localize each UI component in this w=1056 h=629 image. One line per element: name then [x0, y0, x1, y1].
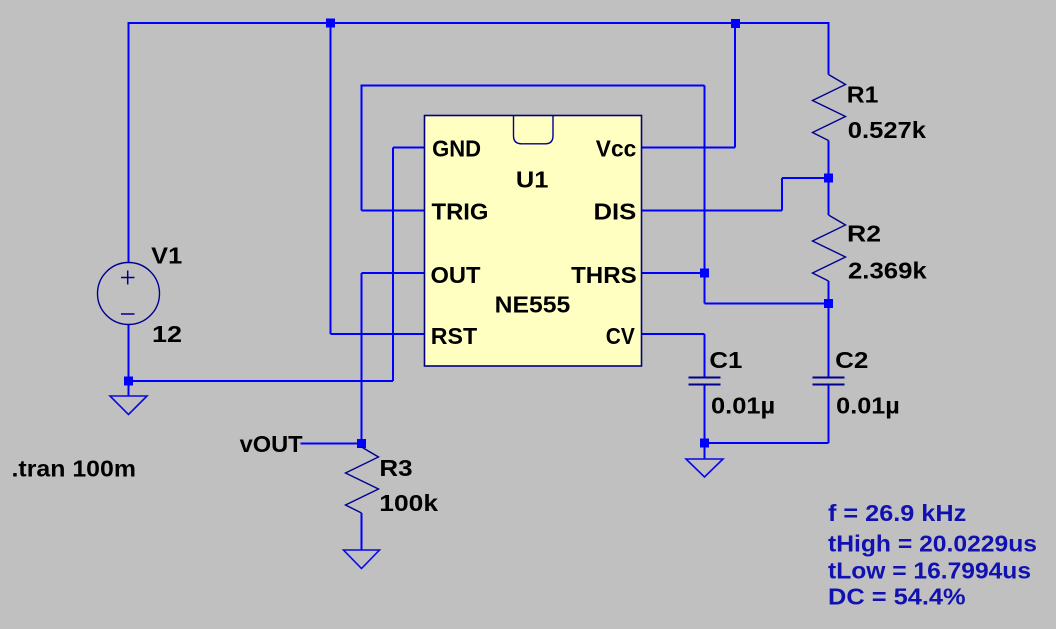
wire THRS net bottom horizontal to R2 — [705, 303, 829, 305]
wire CV horizontal from IC pin — [641, 333, 705, 335]
node junction V1 / ground — [124, 377, 133, 386]
wire R1 top lead vertical — [828, 22, 830, 75]
wire RST horizontal to IC pin — [331, 333, 426, 335]
wire GND vertical drop — [392, 148, 394, 382]
svg-text:CV: CV — [606, 323, 636, 349]
wire R3 ground lead — [361, 513, 363, 550]
wire Vcc vertical from top rail — [734, 23, 736, 148]
wire ground rail to V1 — [129, 380, 394, 382]
svg-text:tLow = 16.7994us: tLow = 16.7994us — [828, 558, 1031, 584]
wire C1 top lead — [704, 334, 706, 377]
node junction THRS — [700, 269, 709, 278]
svg-text:R3: R3 — [379, 455, 412, 481]
IC top notch — [514, 116, 554, 144]
wire OUT horizontal from IC pin — [362, 272, 426, 274]
wire C1 ground lead — [704, 443, 706, 459]
svg-text:GND: GND — [432, 135, 481, 161]
wire C1 bottom lead — [704, 385, 706, 443]
node junction R2 bottom / C2 — [824, 299, 833, 308]
wire DIS horizontal from IC pin — [641, 210, 782, 212]
wire R1 bottom lead — [828, 141, 830, 179]
svg-text:C2: C2 — [835, 347, 868, 373]
svg-text:100k: 100k — [379, 490, 438, 516]
wire V1 ground lead — [128, 381, 130, 396]
wire RST vertical from top rail — [330, 23, 332, 334]
wire vOUT label stub — [301, 443, 362, 445]
resistor R1 zigzag — [813, 75, 846, 141]
svg-text:f = 26.9 kHz: f = 26.9 kHz — [828, 500, 966, 526]
svg-text:OUT: OUT — [431, 262, 481, 288]
svg-text:NE555: NE555 — [495, 292, 571, 318]
capacitor C1 plates — [689, 378, 721, 385]
wire Vcc horizontal to IC pin — [641, 147, 735, 149]
svg-text:Vcc: Vcc — [596, 135, 637, 161]
wire THRS net vertical — [704, 86, 706, 304]
wire TRIG-THRS top horizontal — [361, 85, 705, 87]
svg-text:0.527k: 0.527k — [848, 117, 926, 143]
svg-text:THRS: THRS — [571, 262, 637, 288]
V1 plus sign — [121, 271, 135, 285]
wire C2 bottom lead — [828, 385, 830, 443]
wire C2 top lead — [828, 304, 830, 378]
resistor R3 zigzag — [346, 447, 379, 513]
svg-text:TRIG: TRIG — [432, 199, 489, 225]
svg-text:.tran 100m: .tran 100m — [12, 456, 137, 482]
wire DIS vertical riser — [781, 178, 783, 211]
svg-text:R2: R2 — [847, 221, 881, 247]
wire C2 bottom horizontal to gnd node — [705, 442, 829, 444]
wire R2 top lead — [828, 178, 830, 215]
svg-text:R1: R1 — [847, 82, 879, 108]
svg-text:12: 12 — [152, 321, 182, 347]
svg-text:U1: U1 — [516, 167, 549, 193]
V1 minus sign — [121, 313, 135, 315]
svg-text:tHigh = 20.0229us: tHigh = 20.0229us — [828, 530, 1037, 556]
ground symbol at V1 — [110, 396, 147, 415]
node junction vOUT / R3 — [357, 439, 366, 448]
wire THRS horizontal from IC pin — [641, 272, 705, 274]
ground symbol at C1/C2 — [686, 459, 723, 477]
svg-text:0.01µ: 0.01µ — [711, 392, 775, 418]
svg-text:RST: RST — [431, 323, 477, 349]
capacitor C2 plates — [813, 378, 845, 385]
wire V1 bottom lead — [128, 325, 130, 381]
wire top rail from V1 to R1 — [129, 22, 829, 24]
svg-text:vOUT: vOUT — [240, 431, 303, 457]
wire TRIG horizontal from IC pin — [362, 210, 426, 212]
wire GND horizontal from IC pin — [393, 147, 425, 149]
wire V1 top lead vertical — [128, 22, 130, 263]
svg-text:C1: C1 — [709, 347, 742, 373]
wire R2 bottom lead — [828, 281, 830, 304]
node junction C1/C2 ground — [700, 439, 709, 448]
svg-text:V1: V1 — [151, 243, 182, 269]
svg-text:DC = 54.4%: DC = 54.4% — [828, 584, 966, 610]
node junction top rail / RST — [326, 19, 335, 28]
svg-text:DIS: DIS — [594, 199, 637, 225]
op-amp U1 NE555 IC body — [425, 116, 642, 367]
svg-text:0.01µ: 0.01µ — [836, 392, 900, 418]
node junction top rail / Vcc — [731, 19, 740, 28]
wire DIS horizontal to R1/R2 node — [782, 177, 829, 179]
voltage source V1 circle — [98, 263, 160, 325]
wire OUT vertical drop to R3 — [361, 273, 363, 447]
wire TRIG vertical riser — [361, 86, 363, 211]
svg-text:2.369k: 2.369k — [848, 257, 927, 283]
resistor R2 zigzag — [813, 215, 846, 281]
node junction R1/R2/DIS — [824, 174, 833, 183]
ground symbol at R3 — [344, 550, 380, 569]
